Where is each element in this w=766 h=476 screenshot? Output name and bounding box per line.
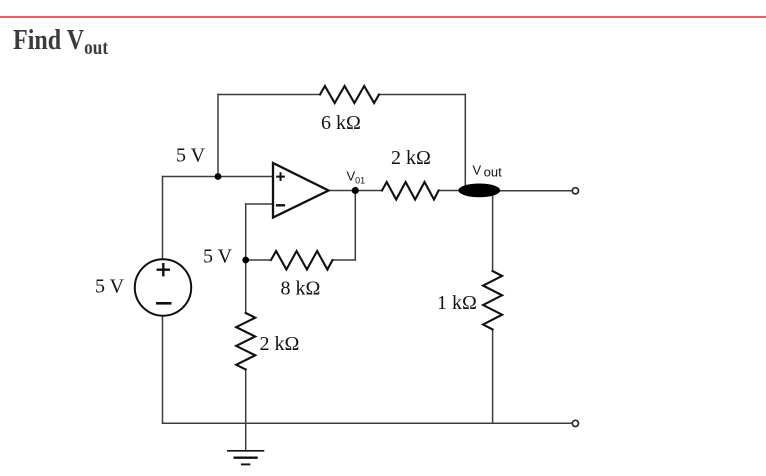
svg-text:1 kΩ: 1 kΩ [437, 292, 477, 314]
resistor R3 8 kOhm (feedback to inverting input) [271, 251, 333, 270]
svg-text:5 V: 5 V [176, 145, 206, 167]
ground bar 3 [242, 463, 250, 465]
svg-text:2 kΩ: 2 kΩ [391, 147, 431, 169]
voltage source plus sign [158, 264, 169, 275]
ground bar 1 [228, 450, 264, 452]
svg-text:5 V: 5 V [95, 276, 125, 298]
resistor R2 2 kOhm (output series) [382, 182, 439, 200]
node C junction dot (5V inverting node) [242, 257, 249, 264]
resistor R4 2 kOhm (vertical to ground) [236, 313, 255, 370]
wire node C down to 2k vertical [245, 260, 247, 313]
svg-text:6 kΩ: 6 kΩ [321, 112, 361, 134]
voltage source minus sign [157, 302, 170, 305]
terminal upper right open circle [572, 188, 578, 194]
wire feedback top left segment [218, 94, 320, 96]
wire node A up to feedback rail [217, 95, 219, 177]
resistor R5 1 kOhm (load) [483, 271, 502, 329]
wire bottom bus [163, 422, 573, 424]
wire 2k to Vout ellipse [439, 190, 462, 192]
svg-text:Vout: Vout [473, 163, 503, 180]
wire op-amp output to 2k [329, 190, 383, 192]
resistor R1 6 kOhm (feedback) [320, 86, 379, 103]
wire riser from 8k up to node V01 [354, 191, 356, 261]
node V01 junction dot [352, 187, 359, 194]
wire feedback top right segment [379, 94, 465, 96]
terminal lower right open circle [572, 420, 578, 426]
node A junction dot (5V node) [215, 173, 222, 180]
wire 2k vertical to ground through bus [245, 370, 247, 452]
wire 8k right to riser [333, 259, 356, 261]
voltage source V1 circle [135, 259, 191, 315]
node Vout filled ellipse [458, 184, 500, 198]
wire inverting input from op-amp [246, 203, 273, 205]
wire node C to 8k [246, 259, 271, 261]
wire Vout ellipse to right terminal [497, 190, 572, 192]
wire left rail lower (source bottom to bus) [162, 316, 164, 423]
op-amp plus input marker [277, 173, 284, 180]
wire right feedback rail down to Vout node [464, 95, 466, 188]
wire 1k down to bus [492, 329, 494, 423]
op-amp minus input marker [277, 204, 284, 206]
svg-text:5 V: 5 V [203, 246, 233, 268]
wire Vout down to 1k [492, 193, 494, 271]
svg-text:2 kΩ: 2 kΩ [260, 333, 300, 355]
ground bar 2 [235, 457, 257, 459]
svg-text:V01: V01 [347, 169, 366, 186]
title Find Vout [13, 25, 108, 60]
op-amp U1 triangle [273, 163, 329, 218]
svg-text:8 kΩ: 8 kΩ [281, 278, 321, 300]
header red rule [0, 16, 766, 18]
wire noninverting input (left rail to op-amp +) [163, 176, 274, 178]
wire inverting down to node C [245, 204, 247, 260]
wire left rail upper (source top to node A level) [162, 177, 164, 260]
